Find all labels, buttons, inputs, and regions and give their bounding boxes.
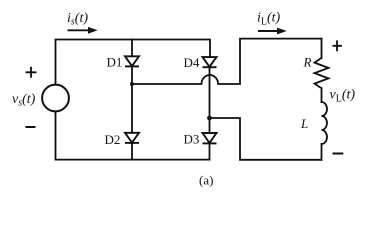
svg-text:L: L <box>300 116 308 131</box>
svg-text:D4: D4 <box>184 55 200 70</box>
svg-text:vs(t): vs(t) <box>12 92 36 109</box>
svg-text:(a): (a) <box>199 173 213 188</box>
svg-text:D3: D3 <box>184 132 200 147</box>
svg-text:R: R <box>303 54 312 69</box>
svg-text:iL(t): iL(t) <box>257 11 281 28</box>
svg-text:vL(t): vL(t) <box>330 87 356 104</box>
svg-text:D2: D2 <box>105 132 121 147</box>
svg-text:D1: D1 <box>107 54 123 69</box>
svg-text:is(t): is(t) <box>67 11 88 28</box>
